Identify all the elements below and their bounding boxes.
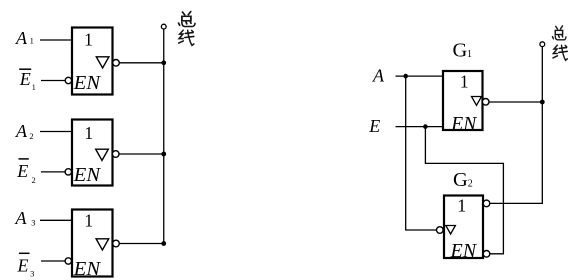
- gate 1 tri-state triangle: [96, 57, 109, 68]
- input A3 label: [15, 208, 36, 228]
- input A2 label: [15, 121, 34, 141]
- svg-text:1: 1: [84, 123, 93, 143]
- junction G1 output-bus: [540, 100, 545, 105]
- input E1-bar label: [19, 69, 36, 92]
- wire E2: [41, 171, 66, 173]
- gate 2 output bubble: [112, 151, 119, 158]
- op gate G1 box: [443, 71, 483, 130]
- wire gate2 output to bus: [119, 153, 164, 155]
- wire A node down to G2 output: [406, 76, 437, 230]
- node A junction: [403, 74, 408, 79]
- tri-state gate 2 box: [72, 120, 113, 186]
- junction gate3-bus: [161, 241, 166, 246]
- svg-text:EN: EN: [73, 72, 102, 94]
- tri-state gate 3 box: [72, 210, 113, 277]
- svg-text:E: E: [368, 116, 380, 136]
- wire A2: [40, 131, 72, 133]
- gate 3 tri-state triangle: [96, 239, 109, 250]
- gate 1 enable bubble: [65, 77, 71, 83]
- svg-text:A: A: [372, 66, 385, 86]
- svg-text:G: G: [453, 40, 468, 62]
- svg-text:E: E: [17, 255, 29, 275]
- gate G1 designator: [453, 40, 473, 62]
- svg-text:G: G: [453, 169, 468, 191]
- wire G1 output to bus: [489, 101, 543, 103]
- G2 enable bubble (bottom right): [483, 251, 490, 258]
- svg-text:1: 1: [457, 195, 466, 215]
- node E junction: [423, 124, 428, 129]
- svg-text:A: A: [15, 121, 28, 141]
- left bus label 总线: [179, 12, 195, 46]
- gate 2 enable bubble: [65, 169, 71, 175]
- svg-text:E: E: [19, 69, 31, 89]
- left bus terminal circle: [161, 24, 166, 29]
- left bus vertical wire: [163, 29, 165, 243]
- wire E1: [41, 80, 66, 82]
- G1 tri-state triangle: [472, 97, 482, 106]
- gate 1 output bubble: [113, 60, 120, 67]
- wire gate1 output to bus: [119, 62, 164, 64]
- gate 3 output bubble: [113, 240, 120, 247]
- G2 input bubble (top right): [483, 200, 490, 207]
- input E3-bar label: [17, 253, 35, 278]
- G1 output bubble: [482, 99, 489, 106]
- wire A3: [40, 219, 72, 221]
- G2 output bubble (left): [437, 227, 444, 234]
- svg-text:1: 1: [84, 30, 93, 50]
- svg-text:E: E: [16, 161, 28, 181]
- svg-text:2: 2: [29, 131, 33, 141]
- svg-text:EN: EN: [73, 258, 102, 280]
- wire E node down right down to G2 EN: [425, 127, 503, 254]
- svg-text:A: A: [15, 208, 28, 228]
- svg-text:2: 2: [32, 175, 36, 185]
- svg-text:EN: EN: [73, 164, 102, 186]
- junction gate1-bus: [161, 60, 166, 65]
- svg-text:3: 3: [30, 269, 34, 279]
- input E2-bar label: [16, 159, 36, 185]
- right bus terminal circle: [540, 42, 545, 47]
- input A1 label: [15, 28, 34, 48]
- wire E3: [41, 260, 66, 262]
- wire gate3 output to bus: [119, 243, 164, 245]
- svg-text:1: 1: [32, 83, 36, 92]
- wire E to G1: [396, 126, 444, 128]
- svg-text:A: A: [15, 28, 28, 48]
- junction gate2-bus: [161, 152, 166, 157]
- svg-text:2: 2: [468, 179, 473, 190]
- gate 2 tri-state triangle: [96, 149, 109, 160]
- right bus label 总线: [552, 26, 567, 60]
- tri-state gate 1 box: [72, 28, 113, 95]
- G2 tri-state triangle: [446, 226, 456, 235]
- wire A to G1: [396, 75, 444, 77]
- svg-text:1: 1: [467, 49, 472, 60]
- gate G2 designator: [453, 169, 473, 191]
- wire A1: [40, 39, 72, 41]
- svg-text:EN: EN: [450, 240, 478, 262]
- svg-text:EN: EN: [450, 114, 477, 135]
- gate 3 enable bubble: [65, 258, 71, 264]
- op gate G2 box: [444, 196, 483, 259]
- svg-text:1: 1: [30, 36, 34, 46]
- svg-text:1: 1: [460, 71, 469, 91]
- svg-text:1: 1: [84, 211, 93, 231]
- right bus vertical wire and bend to G2 input: [490, 47, 543, 204]
- svg-text:3: 3: [31, 218, 35, 228]
